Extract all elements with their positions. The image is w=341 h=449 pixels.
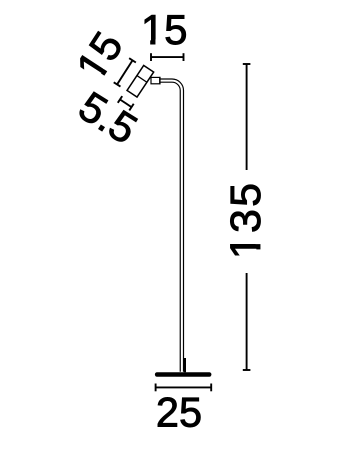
head divider line [137,76,147,83]
dimension line 135 (height) [243,64,251,370]
joint tick [159,77,161,84]
svg-text:25: 25 [156,389,202,436]
mask for digit 1 foot (135) [256,236,262,258]
wire: lamp arm and pole tube outline [160,79,184,372]
base slab [155,372,212,376]
cable detail on pole above base [184,358,186,372]
mask for digit 1 foot (top 15) [142,39,163,45]
label 15 (tilted) [67,23,132,88]
label 135 (rotated) [222,181,270,259]
dimension line 15 (head length, tilted) [114,58,136,86]
lamp head (tilted cylinder) [127,65,154,97]
dimension line 5.5 (head width, tilted) [118,96,134,110]
mask for digit 1 foot (tilted 15) [96,62,112,83]
label 5.5 (tilted) [71,82,145,153]
joint nub between head and arm [151,77,160,83]
dimension line 15 (top, arm length) [151,53,184,61]
dimension line 25 (base width) [156,384,212,392]
svg-text:15: 15 [141,6,188,53]
svg-text:135: 135 [222,181,270,259]
